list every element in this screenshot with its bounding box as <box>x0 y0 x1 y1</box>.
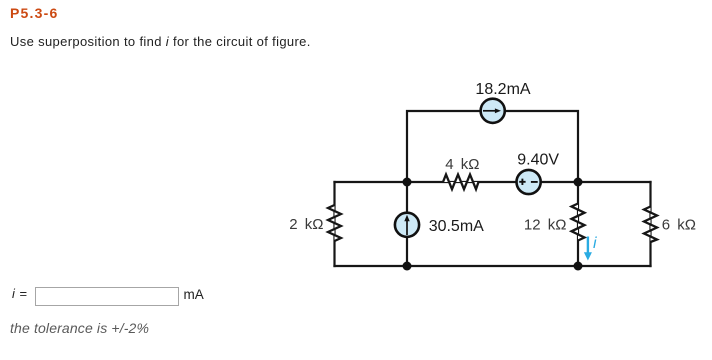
current arrow i <box>584 237 592 261</box>
node junction top right <box>574 178 583 187</box>
answer prompt i = <box>12 286 28 301</box>
wire 12k branch vertical <box>577 182 579 266</box>
voltage source V 9.40V <box>517 170 541 194</box>
svg-text:12 kΩ: 12 kΩ <box>524 216 567 233</box>
answer input box <box>35 287 179 306</box>
unit mA <box>184 287 204 302</box>
wire left vertical <box>333 182 335 266</box>
svg-text:2 kΩ: 2 kΩ <box>289 216 323 233</box>
svg-text:i: i <box>593 235 597 252</box>
current source I 30.5mA <box>395 213 419 237</box>
wire bottom rail <box>335 265 651 267</box>
svg-text:30.5mA: 30.5mA <box>429 218 484 235</box>
resistor R 6k zigzag <box>644 207 657 243</box>
resistor R 2k zigzag <box>328 205 341 241</box>
resistor R 4k zigzag <box>443 175 479 190</box>
node junction bottom middle <box>403 262 412 271</box>
problem statement <box>10 34 311 49</box>
wire right vertical <box>649 182 651 266</box>
wire middle rail <box>335 181 651 183</box>
svg-text:9.40V: 9.40V <box>517 152 559 169</box>
problem title <box>10 5 58 21</box>
node junction bottom right <box>574 262 583 271</box>
wire top rail <box>407 111 578 182</box>
node junction top middle <box>403 178 412 187</box>
resistor R 12k zigzag <box>572 204 585 241</box>
svg-text:4 kΩ: 4 kΩ <box>445 156 479 173</box>
tolerance note <box>10 320 149 336</box>
svg-text:6 kΩ: 6 kΩ <box>662 216 696 233</box>
svg-text:18.2mA: 18.2mA <box>475 81 530 98</box>
current source I 18.2mA <box>481 99 505 123</box>
wire middle branch vertical <box>406 182 408 266</box>
